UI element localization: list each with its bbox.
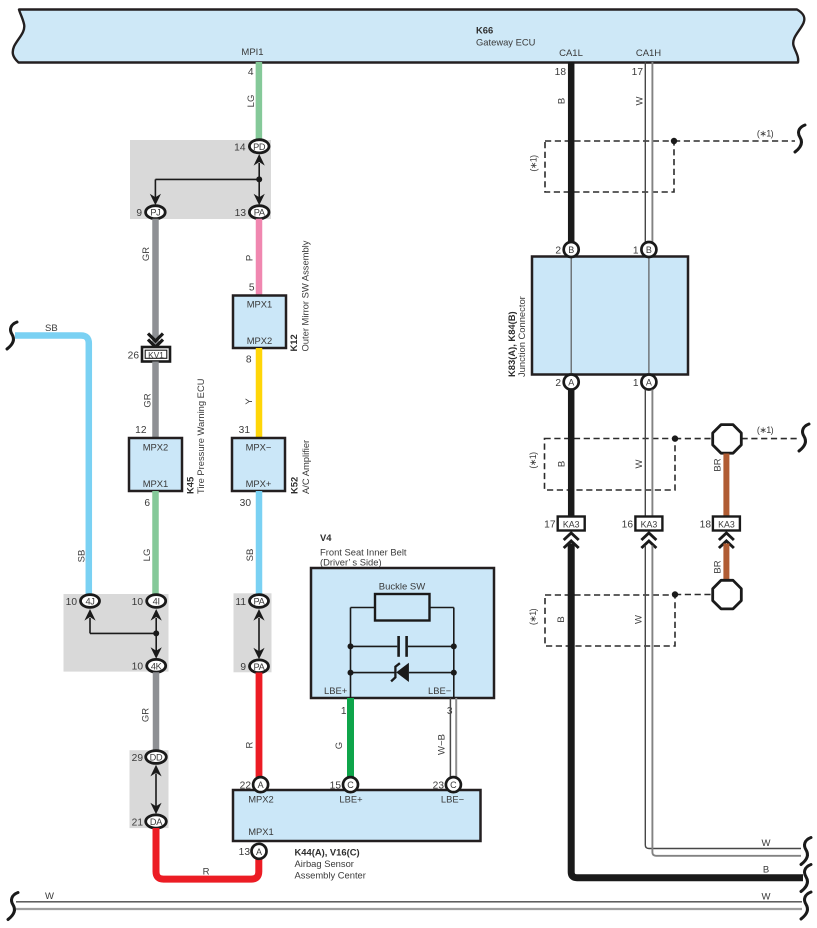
- wire P from PA to K12: [245, 219, 260, 296]
- svg-text:R: R: [203, 867, 210, 878]
- svg-text:(∗1): (∗1): [757, 425, 774, 435]
- svg-text:29: 29: [132, 753, 144, 764]
- svg-text:1: 1: [341, 706, 347, 717]
- capacitor in V4: [348, 636, 457, 657]
- svg-text:B: B: [646, 245, 652, 255]
- svg-text:9: 9: [240, 662, 246, 673]
- svg-text:Assembly Center: Assembly Center: [295, 870, 366, 881]
- wire W lower segment turning right: [634, 546, 812, 865]
- connector 11 PA: [235, 595, 268, 608]
- svg-text:B: B: [763, 865, 769, 876]
- svg-text:K52: K52: [289, 477, 300, 494]
- svg-text:LG: LG: [142, 549, 153, 562]
- connector shield gray box C (11PA/9PA): [234, 593, 272, 672]
- pin 6: [144, 498, 150, 509]
- svg-text:KV1: KV1: [148, 350, 164, 360]
- svg-text:6: 6: [144, 498, 150, 509]
- svg-text:MPI1: MPI1: [241, 47, 263, 58]
- wire in box C: [258, 618, 260, 652]
- svg-text:Junction Connector: Junction Connector: [516, 296, 527, 377]
- svg-text:C: C: [347, 780, 354, 790]
- svg-text:C: C: [450, 780, 457, 790]
- svg-text:12: 12: [135, 425, 147, 436]
- block K45 Tire Pressure Warning ECU: [129, 378, 206, 494]
- connector 13 PA: [235, 206, 269, 219]
- svg-text:MPX−: MPX−: [246, 442, 272, 453]
- node LBE+ label: [324, 685, 348, 696]
- arrow down into 4K: [151, 647, 162, 659]
- svg-text:4I: 4I: [153, 597, 160, 607]
- svg-text:23: 23: [433, 781, 445, 792]
- wire BR upper segment: [713, 454, 727, 518]
- svg-text:30: 30: [240, 498, 252, 509]
- pin 30: [240, 498, 252, 509]
- svg-text:PJ: PJ: [150, 208, 160, 218]
- svg-text:(∗1): (∗1): [528, 452, 538, 469]
- pin 8: [246, 355, 252, 366]
- wire W middle segment: [634, 390, 652, 517]
- arrow up into 4I: [151, 609, 162, 621]
- connector 26 KV1: [128, 347, 170, 362]
- arrow down into PJ: [150, 194, 161, 206]
- wire B (CA1L) upper segment: [557, 62, 572, 243]
- svg-text:18: 18: [700, 520, 712, 531]
- wire R from DA to 13A: [156, 828, 259, 879]
- svg-text:W: W: [634, 459, 645, 468]
- arrow up into DD: [150, 765, 161, 777]
- pin 15 C connector circle: [330, 777, 358, 792]
- block V4: [311, 568, 494, 698]
- svg-text:21: 21: [132, 818, 144, 829]
- pin 31: [239, 425, 251, 436]
- svg-text:P: P: [245, 255, 256, 261]
- svg-text:W−B: W−B: [437, 734, 448, 755]
- connector 14 PD: [234, 140, 269, 154]
- svg-text:(∗1): (∗1): [528, 608, 538, 625]
- svg-text:13: 13: [239, 847, 251, 858]
- connector 16 KA3: [622, 517, 663, 549]
- svg-text:MPX2: MPX2: [247, 335, 273, 346]
- svg-text:18: 18: [555, 67, 567, 78]
- octagon connector bottom (BR): [713, 580, 742, 609]
- svg-text:10: 10: [132, 597, 144, 608]
- arrow up into 4J: [84, 609, 95, 621]
- dashed line to octagon, bottom: [672, 591, 712, 597]
- pin 22 A connector circle: [240, 777, 268, 792]
- svg-text:A/C Amplifier: A/C Amplifier: [300, 440, 311, 494]
- svg-text:W: W: [635, 96, 646, 105]
- svg-text:PD: PD: [253, 142, 266, 152]
- svg-text:31: 31: [239, 425, 251, 436]
- arrow up into 11PA: [253, 609, 264, 621]
- svg-text:10: 10: [66, 597, 78, 608]
- wire B middle segment: [557, 390, 572, 517]
- svg-text:MPX1: MPX1: [143, 478, 169, 489]
- svg-text:W: W: [762, 892, 771, 903]
- arrow up into PD: [254, 154, 265, 166]
- svg-text:5: 5: [249, 283, 255, 294]
- arrow down into 9PA: [253, 648, 264, 660]
- svg-text:PA: PA: [254, 662, 266, 672]
- wire B lower segment turning right: [556, 544, 811, 892]
- buckle SW box: [375, 582, 430, 621]
- connector shield gray box B (4J/4I/4K): [64, 594, 169, 672]
- label V4 Front Seat Inner Belt: [320, 532, 407, 568]
- pin 4: [248, 67, 254, 78]
- svg-text:Airbag Sensor: Airbag Sensor: [295, 858, 354, 869]
- bottom shield wire W full width: [8, 891, 811, 920]
- wire W (CA1H) upper segment: [635, 62, 653, 243]
- wire junction in box B: [90, 618, 159, 651]
- svg-text:B: B: [568, 245, 574, 255]
- svg-text:4: 4: [248, 67, 254, 78]
- svg-text:13: 13: [235, 208, 247, 219]
- svg-text:W: W: [45, 891, 54, 902]
- svg-text:K45: K45: [185, 477, 196, 494]
- svg-text:DD: DD: [150, 753, 163, 763]
- connector 10 4I: [132, 595, 166, 608]
- pin 18: [555, 67, 567, 78]
- pin 1 A connector circle: [633, 375, 657, 390]
- svg-text:17: 17: [544, 520, 556, 531]
- wire R from 9PA to 22A: [245, 673, 260, 778]
- connector 29 DD: [132, 751, 167, 764]
- svg-text:2: 2: [555, 378, 561, 389]
- svg-text:GR: GR: [143, 393, 154, 407]
- svg-text:(Driver’ s Side): (Driver’ s Side): [320, 557, 382, 568]
- connector 18 KA3: [700, 517, 740, 549]
- pin 2 A connector circle: [555, 375, 578, 390]
- pin 2 B connector circle: [555, 242, 578, 257]
- svg-text:MPX1: MPX1: [247, 299, 273, 310]
- chevrons into KV1: [148, 334, 163, 348]
- bus K66 Gateway ECU: [13, 10, 805, 63]
- svg-text:CA1L: CA1L: [559, 48, 583, 59]
- arrow down into PA: [254, 194, 265, 206]
- wire GR from 4K to DD: [141, 672, 157, 750]
- pin 12: [135, 425, 147, 436]
- connector 9 PA: [240, 660, 268, 673]
- svg-text:R: R: [245, 741, 256, 748]
- svg-text:W: W: [634, 615, 645, 624]
- connector 10 4K: [132, 659, 166, 672]
- svg-text:9: 9: [136, 208, 142, 219]
- block K44 Airbag Sensor Assembly Center: [233, 790, 481, 841]
- wire BR lower segment: [713, 544, 727, 582]
- svg-text:K66: K66: [476, 25, 493, 36]
- block K12 Outer Mirror SW Assembly: [233, 240, 311, 351]
- svg-text:Gateway ECU: Gateway ECU: [476, 37, 536, 48]
- svg-text:SB: SB: [45, 323, 58, 334]
- svg-text:KA3: KA3: [718, 520, 735, 530]
- svg-text:PA: PA: [254, 208, 266, 218]
- node LBE- label: [428, 685, 452, 696]
- connector shield gray box D (DD/DA): [130, 750, 169, 828]
- svg-text:MPX2: MPX2: [248, 794, 274, 805]
- svg-text:DA: DA: [150, 817, 163, 827]
- svg-text:LBE−: LBE−: [428, 685, 452, 696]
- svg-text:A: A: [568, 378, 574, 388]
- svg-text:A: A: [256, 847, 262, 857]
- svg-text:17: 17: [632, 67, 644, 78]
- svg-text:V4: V4: [320, 532, 332, 543]
- svg-text:A: A: [258, 780, 264, 790]
- svg-text:SB: SB: [77, 550, 88, 563]
- svg-text:GR: GR: [141, 247, 152, 261]
- svg-text:22: 22: [240, 781, 252, 792]
- svg-text:11: 11: [235, 597, 246, 608]
- svg-text:15: 15: [330, 781, 342, 792]
- svg-text:B: B: [557, 98, 568, 104]
- connector 21 DA: [132, 815, 167, 829]
- wire junction in box A: [155, 163, 262, 198]
- connector shield gray box A (PD/PJ/PA): [130, 140, 271, 219]
- svg-text:2: 2: [555, 246, 561, 257]
- pin 5: [249, 283, 255, 294]
- svg-text:1: 1: [633, 378, 639, 389]
- dashed box (*1) middle: [528, 439, 675, 491]
- svg-text:LBE+: LBE+: [339, 794, 363, 805]
- svg-text:BR: BR: [713, 458, 724, 471]
- wire LG from K45 to 4I: [142, 491, 156, 595]
- dashed box (*1) top: [529, 141, 675, 192]
- octagon connector top (BR): [713, 425, 742, 454]
- svg-text:G: G: [334, 742, 345, 749]
- arrow down into DA: [150, 803, 161, 815]
- svg-text:LG: LG: [246, 95, 257, 108]
- pin 23 C connector circle: [433, 777, 461, 792]
- svg-text:Y: Y: [244, 398, 255, 405]
- svg-text:LBE−: LBE−: [441, 794, 465, 805]
- svg-text:MPX1: MPX1: [248, 826, 274, 837]
- svg-text:8: 8: [246, 355, 252, 366]
- wire GR from PJ to KV1: [141, 219, 156, 347]
- connector 10 4J: [66, 595, 100, 608]
- svg-text:LBE+: LBE+: [324, 685, 348, 696]
- svg-text:B: B: [556, 616, 567, 622]
- svg-text:A: A: [646, 378, 652, 388]
- wire SB from left break to 4J: [7, 322, 89, 595]
- svg-text:PA: PA: [254, 597, 266, 607]
- label K44(A), V16(C): [295, 847, 366, 881]
- svg-text:BR: BR: [713, 560, 724, 573]
- wire GR from KV1 to K45: [143, 362, 156, 439]
- junction connector K83(A), K84(B): [506, 257, 688, 378]
- pin 13 A connector circle: [239, 844, 267, 859]
- connector 9 PJ: [136, 206, 165, 219]
- svg-text:KA3: KA3: [563, 520, 580, 530]
- svg-text:26: 26: [128, 351, 140, 362]
- svg-text:(∗1): (∗1): [757, 129, 774, 139]
- svg-text:14: 14: [234, 143, 246, 154]
- svg-text:Tire Pressure Warning ECU: Tire Pressure Warning ECU: [195, 378, 206, 494]
- svg-text:Outer Mirror SW Assembly: Outer Mirror SW Assembly: [300, 240, 311, 351]
- svg-text:K44(A), V16(C): K44(A), V16(C): [295, 847, 360, 858]
- svg-text:MPX+: MPX+: [246, 478, 272, 489]
- pin 17: [632, 67, 644, 78]
- svg-text:KA3: KA3: [641, 520, 658, 530]
- svg-text:(∗1): (∗1): [529, 155, 539, 172]
- wire Y from K12 to K52: [244, 348, 259, 438]
- dashed box (*1) bottom: [528, 595, 675, 646]
- dashed line to break, top right: [671, 125, 805, 152]
- wire in box D: [155, 774, 157, 808]
- svg-text:10: 10: [132, 662, 144, 673]
- svg-text:B: B: [557, 461, 568, 467]
- svg-text:SB: SB: [245, 549, 256, 562]
- zener diode in V4: [348, 663, 457, 682]
- svg-text:4J: 4J: [85, 597, 94, 607]
- svg-text:W: W: [762, 838, 771, 849]
- wire SB from K52 to 11PA: [245, 491, 259, 595]
- dashed line to octagon and break, middle right: [672, 424, 809, 451]
- svg-text:16: 16: [622, 520, 634, 531]
- wire W-B from V4 to 23C: [437, 698, 457, 778]
- pin 1: [341, 706, 347, 717]
- connector 17 KA3: [544, 517, 585, 549]
- pin 1 B connector circle: [633, 242, 657, 257]
- pin 3: [447, 706, 453, 717]
- wire LG from bus MPI1 to PD: [246, 62, 259, 141]
- svg-text:4K: 4K: [151, 661, 163, 671]
- svg-text:1: 1: [633, 246, 639, 257]
- internal wiring of V4: [351, 608, 454, 699]
- svg-text:Buckle SW: Buckle SW: [379, 582, 425, 593]
- block K52 A/C Amplifier: [232, 438, 311, 494]
- svg-text:MPX2: MPX2: [143, 442, 169, 453]
- svg-text:CA1H: CA1H: [636, 48, 661, 59]
- wire G from V4 to 15C: [334, 698, 351, 777]
- svg-text:K12: K12: [288, 334, 299, 351]
- svg-text:GR: GR: [141, 708, 152, 722]
